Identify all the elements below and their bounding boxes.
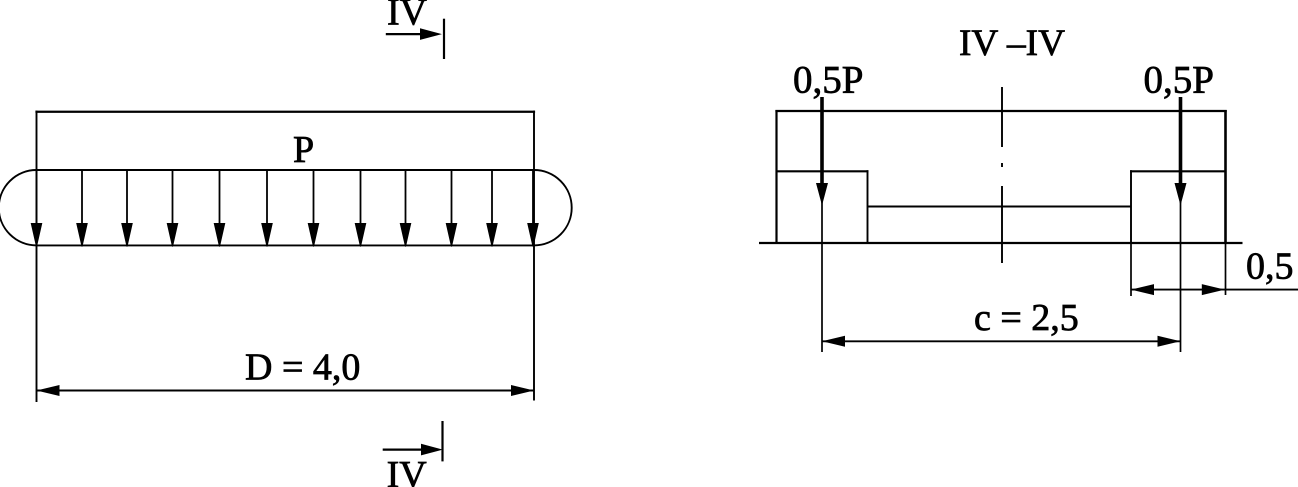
svg-text:IV: IV (387, 454, 428, 487)
svg-text:D = 4,0: D = 4,0 (245, 347, 360, 389)
load arrow 7 head (308, 224, 318, 247)
load arrow 6 shaft (266, 170, 268, 228)
beam outline right edge / right extension line (533, 111, 535, 401)
section mid soffit line (868, 206, 1132, 208)
dimension c: right arrowhead (1158, 336, 1181, 347)
dimension 0,5: extension line right (1225, 243, 1227, 295)
beam outline top edge (35, 111, 535, 113)
load arrow 11 head (487, 224, 497, 247)
section left rib inner edge (867, 170, 869, 244)
load arrow 8 shaft (360, 170, 362, 228)
load arrow 7 shaft (313, 170, 315, 228)
force arrow left: thin extension to dimension (821, 200, 823, 352)
load arrow 5 shaft (219, 170, 221, 228)
section mark IV bottom: arrow line (383, 449, 428, 451)
load arrow 5 head (214, 224, 224, 247)
load arrow 1 shaft (36, 170, 38, 228)
section left step line (777, 170, 869, 172)
load arrow 9 head (400, 224, 410, 247)
dimension c: left arrowhead (822, 336, 845, 347)
section mark IV bottom: arrowhead (421, 444, 443, 456)
beam outline left edge / left extension line (36, 111, 38, 402)
load arrow 6 head (262, 224, 272, 247)
distributed load arrows group (31, 170, 538, 247)
force arrow left: thick shaft (820, 97, 824, 188)
load arrow 9 shaft (405, 170, 407, 228)
centerline dash-dot (1001, 87, 1003, 263)
dimension D right arrowhead (511, 385, 534, 396)
load arrow 4 head (167, 224, 177, 247)
load arrow 4 shaft (172, 170, 174, 228)
load arrow 11 shaft (491, 170, 493, 228)
load arrow 3 shaft (126, 170, 128, 228)
svg-text:P: P (293, 129, 314, 171)
load arrow 1 head (31, 224, 41, 247)
section slab top edge (775, 110, 1226, 112)
load arrow 10 head (446, 224, 456, 247)
svg-text:IV –IV: IV –IV (959, 23, 1065, 64)
section mark IV bottom: cut-plane tick (441, 421, 443, 461)
load arrow 10 shaft (451, 170, 453, 228)
section mark IV top: arrow line (386, 33, 427, 35)
section right edge (1224, 110, 1227, 244)
svg-text:IV: IV (387, 0, 428, 34)
force arrow right: thin extension to dimension (1180, 200, 1182, 352)
svg-text:0,5P: 0,5P (793, 59, 863, 102)
ground line (759, 242, 1243, 244)
load arrow 12 head (528, 224, 538, 247)
svg-text:0,5P: 0,5P (1144, 59, 1214, 102)
load arrow 12 shaft (532, 170, 534, 228)
force arrow right: head (1175, 183, 1187, 206)
dimension D left arrowhead (37, 385, 60, 396)
distributed load stadium outline (0, 170, 572, 245)
svg-text:0,5: 0,5 (1246, 246, 1294, 288)
section right rib inner edge (1130, 170, 1132, 244)
svg-text:c = 2,5: c = 2,5 (974, 297, 1079, 339)
section mark IV top: arrowhead (420, 28, 442, 40)
load arrow 2 head (77, 224, 87, 247)
section right step line (1130, 170, 1225, 172)
load arrow 8 head (355, 224, 365, 247)
force arrow left: head (816, 183, 828, 206)
dimension c: line (822, 340, 1181, 342)
section left edge (775, 110, 777, 244)
dimension 0,5: line (1131, 289, 1298, 291)
load arrow 2 shaft (81, 170, 83, 228)
dimension 0,5: left arrowhead (1131, 284, 1154, 295)
dimension D line (37, 390, 535, 392)
force arrow right: thick shaft (1179, 97, 1183, 188)
dimension 0,5: right arrowhead (1202, 284, 1225, 295)
load arrow 3 head (122, 224, 132, 247)
dimension 0,5: extension line left (1130, 243, 1132, 296)
section mark IV top: cut-plane tick (443, 19, 445, 59)
